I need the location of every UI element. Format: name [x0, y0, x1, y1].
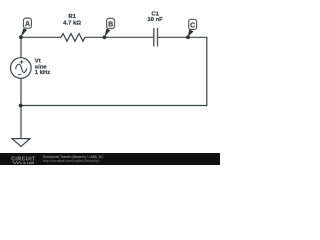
node A junction dot: [19, 35, 23, 39]
svg-text:C: C: [190, 22, 195, 29]
svg-text:4.7 kΩ: 4.7 kΩ: [63, 20, 81, 26]
wire left rail (A to source top): [20, 37, 22, 58]
node C junction dot: [186, 35, 190, 39]
resistor R1 zigzag: [61, 34, 85, 42]
node C box: [189, 19, 197, 29]
svg-text:10 nF: 10 nF: [147, 17, 163, 23]
svg-text:LAB: LAB: [27, 161, 35, 165]
footer credit line 1: [43, 155, 104, 159]
node A pointer: [21, 28, 28, 37]
footer bar: [0, 153, 220, 165]
capacitor C1 right plate: [157, 28, 159, 47]
CircuitLab logo wordmark: [10, 154, 42, 165]
svg-text:B: B: [108, 22, 113, 29]
svg-text:A: A: [25, 21, 30, 28]
voltage source sine symbol: [16, 64, 27, 72]
svg-text:1 kHz: 1 kHz: [35, 70, 50, 76]
svg-text:R1: R1: [68, 14, 76, 20]
voltage source V1 circle: [10, 58, 31, 79]
node B box: [107, 18, 115, 28]
voltage source plus sign: [20, 60, 24, 64]
wire bottom: [20, 105, 207, 107]
node B junction dot: [103, 35, 107, 39]
ground symbol: [12, 139, 30, 147]
junction dot at ground tee: [19, 104, 23, 108]
node A box: [24, 18, 32, 28]
wire R1 to C1 left plate: [85, 36, 153, 38]
footer url line 2: [43, 159, 100, 163]
wire right rail: [206, 37, 208, 106]
capacitor C1 left plate: [153, 28, 155, 47]
wire C1 right plate to top-right corner: [158, 36, 208, 38]
voltage source minus sign: [18, 74, 21, 76]
node C pointer: [188, 29, 194, 37]
wire top from A to R1: [20, 36, 61, 38]
node B pointer: [104, 29, 110, 38]
wire source bottom to bottom wire: [20, 78, 22, 105]
wire bottom junction to ground: [20, 106, 22, 139]
